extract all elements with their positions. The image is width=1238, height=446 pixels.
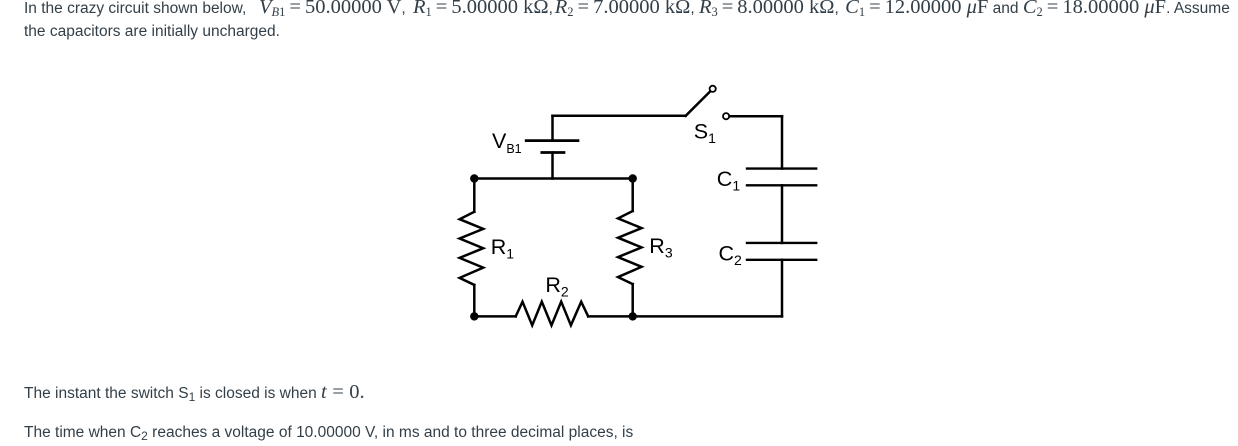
resistor R2 zigzag <box>516 302 589 326</box>
node: bottom middle junction <box>629 312 637 320</box>
switch S1 right terminal circle <box>723 113 729 119</box>
switch S1 blade (diagonal) <box>686 92 710 116</box>
wire: between C1 and C2 <box>781 185 784 243</box>
capacitor C2 plates <box>747 243 816 260</box>
wire: bottom rail right of R2 <box>588 315 782 318</box>
battery VB1 plates <box>526 141 578 153</box>
resistor R3 zigzag <box>618 211 642 284</box>
svg-text:R3: R3 <box>649 234 673 261</box>
wire: right branch down to C1 <box>781 116 784 168</box>
resistor R1 zigzag <box>460 212 484 285</box>
wire: C2 down to bottom rail <box>781 260 784 317</box>
wire: top node rail <box>474 177 632 180</box>
svg-text:S1: S1 <box>694 119 716 146</box>
wire: battery bottom lead to node row <box>551 153 554 179</box>
svg-text:VB1: VB1 <box>492 129 522 156</box>
node: bottom left junction <box>470 312 478 320</box>
svg-text:C2: C2 <box>719 241 743 268</box>
svg-text:R1: R1 <box>491 235 515 262</box>
wire: switch right terminal to right branch <box>730 115 782 118</box>
wire: battery top lead up from long plate <box>551 116 554 140</box>
node: top middle junction <box>629 174 637 182</box>
wire: left branch upper <box>473 179 476 212</box>
wire: top horizontal to switch <box>553 115 686 118</box>
wire: left branch lower <box>473 285 476 317</box>
node: top left junction <box>470 174 478 182</box>
wire: middle branch lower <box>631 284 634 316</box>
switch S1 left terminal circle <box>710 86 716 92</box>
wire: bottom rail left of R2 <box>474 315 515 318</box>
svg-text:R2: R2 <box>545 273 569 300</box>
svg-text:C1: C1 <box>717 167 741 194</box>
wire: middle branch upper <box>631 179 634 212</box>
capacitor C1 plates <box>747 169 816 186</box>
